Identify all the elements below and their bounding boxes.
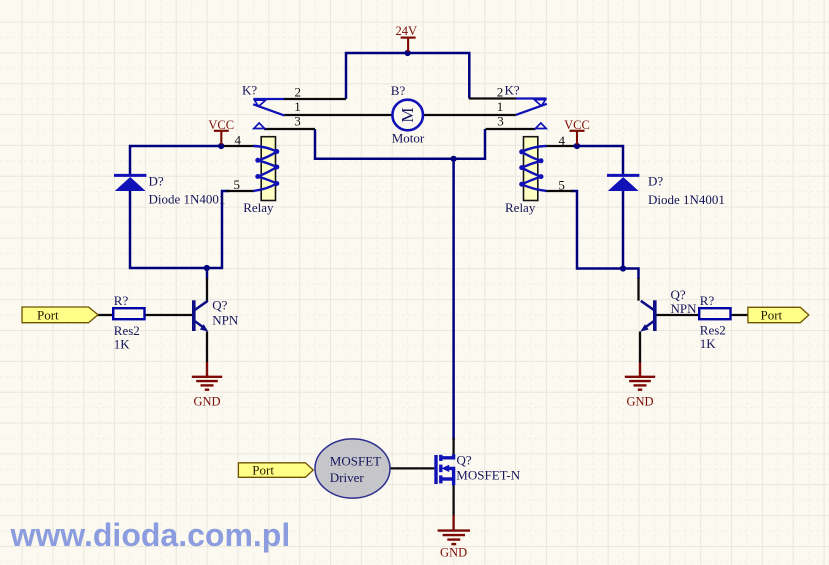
- transistor Q1 emitter arrow: [200, 324, 208, 331]
- node 24V junction: [405, 50, 411, 56]
- wire driver to gate: [390, 467, 434, 469]
- svg-text:GND: GND: [626, 394, 653, 408]
- svg-text:NPN: NPN: [212, 313, 239, 328]
- power port VCC left: [214, 131, 229, 145]
- pin right emitter to gnd: [639, 332, 641, 363]
- pin mosfet source black: [452, 485, 454, 516]
- pin relay-right 5: [545, 190, 573, 192]
- pin K2-right 1 / motor right: [423, 114, 516, 116]
- svg-text:Driver: Driver: [330, 470, 365, 485]
- svg-text:2: 2: [295, 84, 302, 99]
- port bottom: [238, 462, 313, 477]
- svg-text:www.dioda.com.pl: www.dioda.com.pl: [10, 517, 291, 553]
- svg-text:Port: Port: [761, 308, 783, 323]
- pin relay-left 4: [224, 145, 257, 147]
- svg-text:Motor: Motor: [392, 130, 425, 145]
- transistor Q2 emitter arrow: [640, 324, 648, 331]
- pin mosfet drain black: [452, 438, 454, 454]
- relay K2 coil right: [519, 137, 545, 201]
- svg-text:M: M: [398, 107, 417, 122]
- wire drain vertical: [452, 159, 455, 440]
- wire right resistor to port: [731, 314, 749, 316]
- svg-text:Port: Port: [37, 308, 59, 323]
- node left VCC junction: [218, 143, 224, 149]
- wire left resistor to base: [145, 314, 193, 316]
- pin K1-left 1 / motor left: [284, 114, 392, 116]
- mosfet arrow: [441, 465, 449, 472]
- node motor bus junction: [451, 156, 457, 162]
- wire left port to resistor: [98, 314, 114, 316]
- wire right base to resistor: [656, 314, 699, 316]
- resistor R1 left: [113, 308, 144, 319]
- resistor R2 right: [699, 308, 730, 319]
- svg-text:Diode 1N4001: Diode 1N4001: [648, 192, 725, 207]
- svg-text:5: 5: [234, 177, 241, 192]
- svg-text:Port: Port: [252, 462, 274, 477]
- ground GND right: [625, 362, 655, 390]
- svg-text:NPN: NPN: [671, 301, 698, 316]
- transistor Q1 left NPN: [194, 300, 208, 331]
- pin relay-left 5: [226, 190, 255, 192]
- ground GND bottom: [438, 515, 470, 544]
- svg-text:VCC: VCC: [208, 118, 234, 132]
- ground GND left: [192, 362, 222, 390]
- svg-text:Q?: Q?: [671, 287, 686, 302]
- pin K2-right 3: [486, 128, 536, 130]
- svg-text:Relay: Relay: [505, 200, 536, 215]
- svg-text:B?: B?: [391, 83, 406, 98]
- svg-text:1: 1: [294, 99, 301, 114]
- diode D1 left: [114, 175, 146, 191]
- svg-text:K?: K?: [242, 82, 257, 97]
- pin left emitter to gnd: [206, 332, 208, 363]
- svg-text:1K: 1K: [114, 337, 131, 352]
- svg-text:5: 5: [558, 177, 565, 192]
- svg-text:1: 1: [497, 99, 504, 114]
- port left: [22, 307, 98, 323]
- wire right diode bottom: [622, 191, 625, 269]
- svg-text:D?: D?: [149, 173, 164, 188]
- svg-text:R?: R?: [114, 293, 129, 308]
- pin K2-right 2: [469, 97, 516, 99]
- svg-text:3: 3: [497, 114, 504, 129]
- pin left collector: [206, 278, 208, 301]
- wire right pin5 loop: [571, 191, 639, 279]
- relay K1 coil left: [254, 137, 279, 201]
- wire top bus 24V rail: [346, 53, 469, 99]
- mosfet driver ellipse U1: [315, 439, 390, 498]
- node right VCC junction: [574, 143, 580, 149]
- svg-text:4: 4: [559, 133, 566, 148]
- svg-text:K?: K?: [505, 82, 520, 97]
- node left diode/collector junction: [204, 265, 210, 271]
- svg-text:Q?: Q?: [457, 452, 472, 467]
- svg-text:2: 2: [497, 84, 504, 99]
- svg-text:Relay: Relay: [243, 200, 274, 215]
- svg-text:Diode 1N4001: Diode 1N4001: [149, 192, 226, 207]
- wire right pin4 to diode: [573, 146, 623, 175]
- wire middle bus: [315, 129, 485, 159]
- svg-text:GND: GND: [193, 394, 220, 408]
- svg-text:MOSFET: MOSFET: [330, 454, 381, 469]
- power port 24V: [401, 38, 416, 52]
- svg-text:Q?: Q?: [212, 298, 227, 313]
- wire left collector stub: [206, 268, 209, 279]
- port right: [748, 307, 809, 322]
- pin K1-left 2: [284, 98, 346, 100]
- wire left pin4 to diode: [130, 146, 224, 175]
- pin relay-right 4: [545, 145, 573, 147]
- svg-text:24V: 24V: [396, 24, 418, 38]
- transistor Q2 right NPN: [641, 300, 655, 331]
- svg-text:GND: GND: [440, 545, 467, 559]
- svg-text:R?: R?: [700, 293, 715, 308]
- svg-text:MOSFET-N: MOSFET-N: [456, 468, 520, 483]
- motor B1 circle: [392, 100, 423, 131]
- svg-text:D?: D?: [648, 173, 663, 188]
- pin K1-left 3: [264, 128, 315, 130]
- svg-text:3: 3: [294, 114, 301, 129]
- power port VCC right: [570, 131, 585, 145]
- pin right collector: [637, 278, 639, 301]
- svg-text:4: 4: [235, 132, 242, 147]
- diode D2 right: [607, 175, 639, 191]
- wire left diode bottom loop: [130, 191, 229, 268]
- svg-text:VCC: VCC: [564, 118, 590, 132]
- mosfet Q3 N-channel: [436, 454, 454, 485]
- node right diode junction: [620, 265, 626, 271]
- relay K1 contact left: [253, 99, 284, 129]
- relay K2 contact right: [516, 99, 547, 129]
- svg-text:1K: 1K: [700, 336, 717, 351]
